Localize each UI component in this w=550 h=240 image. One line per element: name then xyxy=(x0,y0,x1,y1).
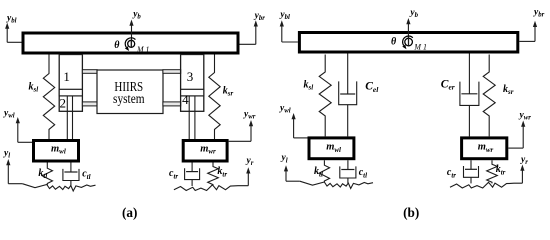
svg-text:system: system xyxy=(113,91,145,106)
arrow y_r (b) xyxy=(521,169,523,183)
piston rod (a) right xyxy=(188,96,190,140)
wheel mass m_wl (a) xyxy=(34,141,79,162)
svg-text:θ: θ xyxy=(114,40,120,51)
arrow y_wr (b) xyxy=(508,147,523,149)
arrow y_l (a) xyxy=(8,183,22,185)
suspension spring k_sr (b) xyxy=(483,55,495,137)
svg-text:(b): (b) xyxy=(403,205,419,220)
road profile left (b) xyxy=(300,181,373,188)
HIIRS system box (a) xyxy=(97,70,163,114)
svg-text:(a): (a) xyxy=(122,205,137,220)
arrow y_wl (b) xyxy=(294,137,308,139)
suspension spring k_sr (a) xyxy=(209,55,220,140)
piston rod (a) left xyxy=(66,96,68,140)
wheel mass m_wr (a) xyxy=(183,141,227,162)
svg-text:θ: θ xyxy=(391,36,397,47)
arrow y_wl (a) xyxy=(18,141,32,143)
arrow y_r (a) xyxy=(247,172,249,186)
suspension damper C_el (b) xyxy=(347,54,349,95)
tire spring k_tr (a) xyxy=(208,163,219,186)
tire damper c_tr (b) xyxy=(470,160,472,169)
arrow y_br (a) xyxy=(240,43,256,45)
tire damper c_tl (a) xyxy=(70,163,72,173)
wheel mass m_wr (b) xyxy=(462,138,507,159)
arrow y_bl (a) xyxy=(7,41,21,43)
arrow y_wr (a) xyxy=(229,140,251,142)
arrow y_b (b) xyxy=(407,23,409,47)
figure (a) sprung-mass beam M,I xyxy=(23,33,238,53)
svg-text:M 1: M 1 xyxy=(413,42,426,51)
svg-text:2: 2 xyxy=(60,96,67,111)
arrow y_l (b) xyxy=(286,180,300,182)
pipe HIIRS-chamber4 (a) xyxy=(163,102,181,106)
arrow y_br (b) xyxy=(519,40,535,42)
pitch pivot theta (b) xyxy=(405,38,413,46)
svg-text:3: 3 xyxy=(187,69,194,84)
tire spring k_tr (b) xyxy=(487,160,498,183)
svg-text:M 1: M 1 xyxy=(136,45,149,54)
pipe HIIRS-chamber3 (a) xyxy=(163,70,181,74)
suspension damper C_er (b) xyxy=(468,54,470,94)
arrow y_b (a) xyxy=(131,24,133,47)
suspension spring k_sl (a) xyxy=(43,55,54,140)
road profile left (a) xyxy=(22,184,95,191)
tire damper c_tr (a) xyxy=(191,163,193,172)
arrow y_bl (b) xyxy=(282,41,298,43)
tire spring k_tl (a) xyxy=(42,163,52,186)
tire spring k_tl (b) xyxy=(319,160,329,182)
pipe chamber1-HIIRS (a) xyxy=(82,70,97,74)
tire damper c_tl (b) xyxy=(347,160,349,169)
hydraulic cylinder 1-2 (a) xyxy=(59,55,82,112)
road profile right (b) xyxy=(450,182,522,188)
suspension spring k_sl (b) xyxy=(319,55,331,137)
figure (b) sprung-mass beam M,I xyxy=(299,33,517,53)
svg-text:4: 4 xyxy=(182,92,189,107)
pitch pivot theta (a) xyxy=(128,40,135,47)
wheel mass m_wl (b) xyxy=(309,138,354,159)
road profile right (a) xyxy=(174,185,248,191)
pipe chamber2-HIIRS (a) xyxy=(82,102,97,106)
hydraulic cylinder 3-4 (a) xyxy=(181,55,204,112)
svg-text:1: 1 xyxy=(63,69,70,84)
